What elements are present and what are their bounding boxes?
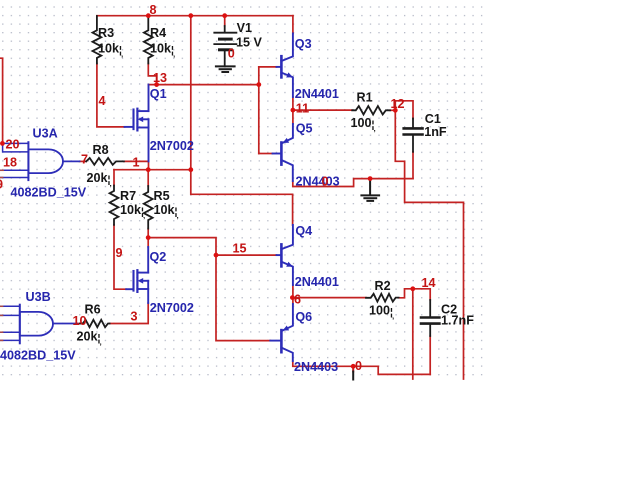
svg-text:2N4403: 2N4403 bbox=[294, 360, 338, 374]
resistor R4 10k bbox=[144, 16, 153, 64]
wire U3A input line D bbox=[0, 177, 28, 179]
junction node 15 at Q4 base tee bbox=[214, 253, 219, 258]
svg-text:R1: R1 bbox=[357, 91, 373, 105]
battery V1 plate 2 short thick bbox=[220, 38, 232, 41]
svg-text:R3: R3 bbox=[98, 26, 114, 40]
junction node 13 bbox=[154, 82, 159, 87]
resistor R1 100 bbox=[352, 106, 390, 114]
svg-text:Q5: Q5 bbox=[296, 121, 313, 135]
transistor Q4 2N4401 NPN bbox=[277, 225, 293, 285]
svg-text:18: 18 bbox=[3, 156, 17, 170]
wire Q5 collector to ground rail bbox=[293, 179, 413, 187]
svg-text:1nF: 1nF bbox=[424, 125, 447, 139]
wire V1 top stub bbox=[224, 16, 226, 26]
wire Q5 base red part bbox=[259, 153, 273, 155]
mosfet Q2 2N7002 bbox=[126, 247, 148, 303]
resistor R2 100 bbox=[366, 294, 399, 302]
svg-text:15: 15 bbox=[233, 242, 247, 256]
svg-text:11: 11 bbox=[296, 102, 309, 116]
wire R4 bottom jog to node 13 bbox=[148, 64, 156, 85]
svg-text:2N7002: 2N7002 bbox=[150, 301, 194, 315]
svg-text:7: 7 bbox=[81, 153, 88, 167]
battery V1 lead bottom bbox=[224, 51, 226, 66]
wire U3B input line 1 bbox=[0, 305, 20, 307]
svg-text:14: 14 bbox=[422, 276, 436, 290]
resistor R6 20k bbox=[80, 320, 110, 327]
svg-text:2N4401: 2N4401 bbox=[295, 87, 339, 101]
wire Q4 emitter to node 6 dot bbox=[292, 285, 294, 298]
node 0 ground stub black part bbox=[352, 372, 354, 380]
capacitor C2 1.7nF bbox=[421, 300, 439, 336]
wire U3A input line B node 20 bbox=[3, 143, 29, 152]
resistor R3 10k bbox=[93, 16, 102, 64]
svg-text:4: 4 bbox=[99, 94, 106, 108]
wire Q2 drain stub from node 15 dot bbox=[147, 238, 149, 247]
wire node 14 down to sheet edge bbox=[412, 289, 414, 379]
battery V1 plate 4 short thick bbox=[220, 48, 232, 51]
resistor R7 10k bbox=[110, 186, 119, 225]
battery V1 plate 3 long bbox=[214, 43, 236, 45]
svg-text:0: 0 bbox=[355, 359, 362, 373]
wire U3B input line 3 bbox=[0, 331, 20, 333]
svg-text:13: 13 bbox=[153, 71, 167, 85]
svg-text:2N4401: 2N4401 bbox=[295, 275, 339, 289]
ground G1 under battery bbox=[216, 66, 235, 72]
wire node 4 R3 bottom to Q1 gate bbox=[97, 64, 125, 127]
svg-text:20: 20 bbox=[6, 138, 20, 152]
svg-text:9: 9 bbox=[0, 178, 3, 192]
wire C1 bottom lead red part bbox=[412, 152, 414, 179]
resistor R8 20k bbox=[86, 158, 124, 165]
battery V1 lead top bbox=[224, 26, 226, 32]
wire U3B input line 2 bbox=[0, 314, 20, 316]
svg-text:R6: R6 bbox=[85, 303, 101, 317]
AND gate U3B 4082BD bbox=[20, 305, 77, 344]
junction node 8 at R4 bbox=[146, 13, 151, 18]
junction node 6 bbox=[290, 295, 295, 300]
svg-text:R2: R2 bbox=[375, 279, 391, 293]
svg-text:0: 0 bbox=[228, 47, 235, 61]
wire node 13 horizontal Q1 drain to Q3/Q5 base column bbox=[148, 84, 258, 86]
junction at x=190.6 top rail bbox=[188, 13, 193, 18]
wire C2 bottom lead red part bbox=[429, 336, 431, 374]
wire node 3 R6 right to Q2 source bbox=[110, 303, 149, 324]
U3B input line 1 red tip bbox=[0, 305, 3, 307]
svg-text:Q3: Q3 bbox=[295, 37, 312, 51]
transistor Q6 2N4403 PNP bbox=[270, 304, 293, 361]
wire Q6 emitter stub from node 6 bbox=[292, 298, 294, 304]
wire R5 bottom to node 15 dot bbox=[147, 229, 149, 238]
svg-text:15 V: 15 V bbox=[236, 35, 263, 49]
svg-text:3: 3 bbox=[131, 310, 138, 324]
svg-text:Q2: Q2 bbox=[150, 250, 167, 264]
svg-text:4082BD_15V: 4082BD_15V bbox=[11, 186, 87, 200]
wire node 15 run to Q4 base bbox=[148, 238, 276, 256]
junction x=190.6 at y=169.5 bbox=[188, 167, 193, 172]
wire R1 right to node 12 dot bbox=[390, 109, 395, 111]
svg-text:1: 1 bbox=[133, 156, 140, 170]
wire node 14 to C2 top bbox=[413, 289, 430, 300]
mosfet Q1 2N7002 bbox=[125, 85, 149, 162]
wire node 12 jog to C1 top bbox=[395, 101, 413, 119]
wire U3A input line A node 20 bbox=[3, 142, 29, 144]
junction at V1 top bbox=[222, 13, 227, 18]
resistor R5 10k bbox=[144, 186, 153, 229]
svg-text:2N7002: 2N7002 bbox=[150, 139, 194, 153]
svg-text:V1: V1 bbox=[237, 21, 252, 35]
wire x=190.6 down and over to Q4 collector bbox=[191, 170, 293, 225]
svg-text:2N4403: 2N4403 bbox=[296, 175, 340, 189]
svg-text:8: 8 bbox=[150, 3, 157, 17]
svg-text:Q4: Q4 bbox=[295, 224, 312, 238]
wire node 20 stub at left edge bbox=[0, 58, 3, 143]
wire node 0 to C2 bottom bbox=[353, 366, 430, 374]
U3A input line C red tip bbox=[0, 169, 3, 171]
wire top power rail node 8 bbox=[97, 15, 293, 17]
wire node 11 Q3 emitter to dot bbox=[292, 97, 294, 110]
wire R5 top stub bbox=[147, 170, 149, 186]
svg-text:1.7nF: 1.7nF bbox=[441, 314, 474, 328]
transistor Q3 2N4401 NPN bbox=[277, 34, 293, 98]
transistor Q5 2N4403 PNP bbox=[273, 124, 293, 181]
junction node 20 bbox=[0, 141, 5, 146]
wire U3B output to R6 bbox=[77, 323, 80, 325]
svg-text:10: 10 bbox=[73, 314, 87, 328]
svg-text:4082BD_15V: 4082BD_15V bbox=[0, 349, 76, 363]
ground G2 near C1 bbox=[361, 181, 379, 201]
wire base column x=258.8 node13 bbox=[258, 67, 260, 154]
wire R2 right jog to node 14 bbox=[399, 289, 413, 298]
svg-text:6: 6 bbox=[294, 293, 301, 307]
wire U3B input line 4 bbox=[0, 339, 20, 341]
svg-text:R5: R5 bbox=[154, 189, 170, 203]
wire horizontal run y=169.5 R7 R5 tops bbox=[114, 169, 191, 171]
battery V1 plate 1 long bbox=[214, 32, 236, 34]
junction node 12 bbox=[393, 108, 398, 113]
svg-text:R8: R8 bbox=[93, 143, 109, 157]
junction node 13 base column bbox=[256, 82, 261, 87]
U3B input line 4 red tip bbox=[0, 339, 3, 341]
junction ground G2 bbox=[368, 176, 373, 181]
wire U3A output to R8 bbox=[80, 160, 87, 162]
wire Q5 emitter stub from node 11 bbox=[292, 110, 294, 124]
AND gate U3A 4082BD bbox=[28, 142, 79, 180]
wire node 9 R7 bottom to Q2 gate bbox=[114, 225, 126, 289]
wire vertical x=190.6 rail to node 8 run bbox=[190, 16, 192, 170]
wire U3A input line C node 18 bbox=[0, 169, 28, 171]
svg-text:0: 0 bbox=[322, 175, 329, 189]
junction node 14 bbox=[410, 286, 415, 291]
wire node 11 to R1 bbox=[293, 109, 352, 111]
svg-text:Q6: Q6 bbox=[295, 310, 312, 324]
wire Q3 collector to top rail bbox=[292, 16, 294, 34]
svg-text:9: 9 bbox=[116, 246, 123, 260]
junction node 11 bbox=[291, 108, 296, 113]
svg-text:R4: R4 bbox=[150, 26, 166, 40]
U3A input line D red tip bbox=[0, 177, 3, 179]
capacitor C1 1nF bbox=[404, 119, 423, 152]
wire node 15 down to Q6 base bbox=[216, 255, 270, 341]
wire node 6 to R2 bbox=[292, 297, 366, 299]
svg-text:12: 12 bbox=[391, 97, 405, 111]
svg-text:Q1: Q1 bbox=[150, 87, 167, 101]
wire node 12 down right side long run bbox=[395, 110, 463, 379]
svg-text:R7: R7 bbox=[120, 189, 136, 203]
U3B input line 2 red tip bbox=[0, 314, 3, 316]
wire node 1 R8 right to Q1 source corner bbox=[124, 161, 149, 169]
U3B input line 3 red tip bbox=[0, 331, 3, 333]
svg-text:U3A: U3A bbox=[33, 127, 58, 141]
wire node 0 Q6 collector run bbox=[293, 361, 353, 366]
svg-text:U3B: U3B bbox=[26, 290, 51, 304]
junction node 15 at R5 bottom bbox=[146, 235, 151, 240]
junction node 0 bbox=[351, 364, 356, 369]
junction node 1 / R5 top bbox=[146, 167, 151, 172]
wire Q3 base red part bbox=[259, 66, 277, 68]
wire node 0 ground stub red part bbox=[352, 366, 354, 371]
wire R7 top stub bbox=[113, 170, 115, 186]
